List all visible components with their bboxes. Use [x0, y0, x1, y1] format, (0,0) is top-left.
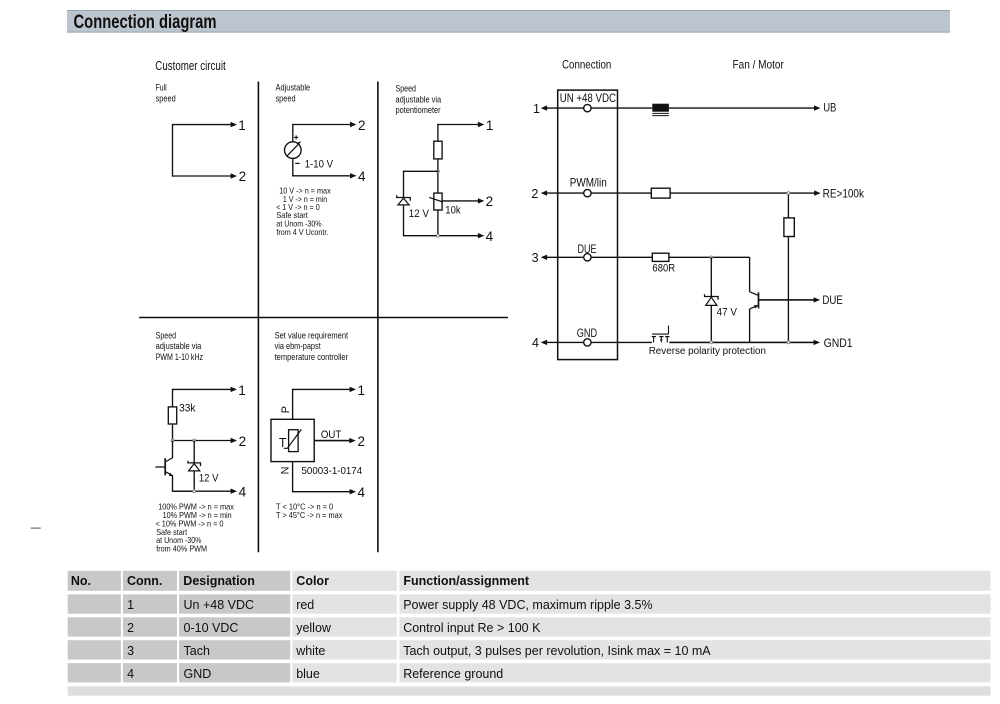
wire vertical: [172, 424, 174, 441]
svg-text:white: white: [295, 644, 325, 658]
svg-text:1: 1: [533, 102, 540, 116]
svg-text:33k: 33k: [179, 403, 196, 415]
resistor R3: [784, 218, 794, 237]
svg-text:UN +48 VDC: UN +48 VDC: [560, 92, 616, 105]
svg-text:DUE: DUE: [822, 293, 843, 307]
svg-text:Reference ground: Reference ground: [403, 667, 503, 681]
svg-text:10k: 10k: [445, 205, 461, 217]
svg-text:N: N: [280, 467, 292, 475]
svg-text:Full: Full: [156, 83, 167, 93]
wiper output to pin 2: [442, 200, 479, 202]
svg-text:4: 4: [239, 484, 247, 499]
zener diode 12 V: [193, 441, 195, 463]
svg-text:Color: Color: [296, 574, 329, 588]
wire vertical N: [292, 462, 294, 493]
wire row 2: [591, 192, 651, 194]
node junction a: [171, 439, 174, 442]
controller box U1: [271, 419, 314, 461]
wire vertical: [172, 124, 174, 177]
wire to GND1: [669, 341, 814, 343]
svg-text:Connection diagram: Connection diagram: [74, 12, 217, 33]
wire vertical: [172, 389, 174, 407]
svg-text:UB: UB: [823, 101, 836, 115]
table row 4: [68, 663, 121, 682]
svg-text:2: 2: [127, 621, 134, 635]
svg-text:50003-1-0174: 50003-1-0174: [302, 466, 363, 477]
svg-text:Function/assignment: Function/assignment: [403, 574, 530, 588]
svg-text:3: 3: [127, 644, 134, 658]
resistor R upper: [434, 141, 442, 159]
zener diode 12 V: [397, 195, 411, 200]
svg-text:1: 1: [238, 383, 246, 398]
svg-text:2: 2: [358, 118, 366, 133]
svg-text:12 V: 12 V: [199, 473, 219, 485]
voltage source 1-10 V: [285, 142, 302, 159]
transistor Q2: [749, 257, 751, 292]
wire down to GND row: [787, 237, 789, 343]
svg-text:2: 2: [239, 434, 247, 449]
svg-text:Customer circuit: Customer circuit: [155, 58, 226, 73]
svg-text:No.: No.: [71, 574, 91, 588]
wire row 1: [591, 107, 652, 109]
potentiometer 10k: [434, 193, 442, 210]
resistor 33k: [168, 407, 176, 424]
node junction R3-GND: [787, 341, 790, 344]
node junction: [437, 234, 440, 237]
base wire to DUE: [759, 299, 815, 301]
svg-text:adjustable via: adjustable via: [396, 94, 442, 104]
zener diode 47 V: [710, 257, 712, 296]
svg-text:1: 1: [127, 598, 134, 612]
svg-text:1: 1: [238, 118, 246, 133]
svg-text:Connection: Connection: [562, 58, 611, 72]
svg-text:4: 4: [127, 667, 134, 681]
svg-text:3: 3: [532, 251, 539, 265]
node junction c: [193, 490, 196, 493]
svg-text:blue: blue: [296, 667, 320, 681]
wire to pin 4: [293, 491, 351, 493]
minus sign: [295, 162, 299, 164]
svg-text:Speed: Speed: [396, 83, 417, 93]
pin 3 lead: [546, 256, 584, 258]
wire to pin 1: [173, 124, 232, 126]
node junction: [437, 170, 440, 173]
svg-text:1: 1: [358, 383, 366, 398]
wire vertical P: [292, 389, 294, 420]
svg-text:2: 2: [531, 187, 538, 201]
svg-text:4: 4: [486, 229, 494, 244]
node junction RE: [787, 192, 790, 195]
svg-text:Designation: Designation: [183, 574, 255, 588]
node junction zener-GND: [710, 341, 713, 344]
table bottom bar: [68, 686, 991, 695]
MOSFET reverse polarity protection: [652, 336, 656, 338]
svg-text:Fan / Motor: Fan / Motor: [733, 58, 784, 72]
svg-text:PWM/lin: PWM/lin: [570, 177, 607, 190]
resistor 680R: [652, 253, 669, 261]
svg-text:680R: 680R: [652, 262, 675, 274]
wire to UB: [669, 107, 815, 109]
svg-text:Reverse polarity protection: Reverse polarity protection: [649, 346, 766, 357]
wire from 680R: [669, 256, 750, 258]
table row 3: [68, 640, 121, 659]
svg-text:12 V: 12 V: [409, 208, 430, 220]
wire to pin 2: [173, 440, 232, 442]
transistor Q1: [172, 441, 174, 458]
svg-text:speed: speed: [156, 93, 176, 103]
wire to pin 2: [173, 175, 232, 177]
svg-text:Power supply 48 VDC, maximum r: Power supply 48 VDC, maximum ripple 3.5%: [403, 598, 652, 612]
pin 4 lead: [546, 341, 584, 343]
svg-text:Conn.: Conn.: [127, 574, 162, 588]
svg-text:RE>100k: RE>100k: [823, 186, 864, 200]
node junction b: [193, 439, 196, 442]
svg-text:2: 2: [486, 194, 494, 209]
table row 2: [68, 617, 121, 636]
svg-text:47 V: 47 V: [717, 306, 738, 318]
margin dash: [31, 527, 41, 529]
svg-text:via ebm-papst: via ebm-papst: [275, 341, 321, 351]
svg-text:2: 2: [358, 434, 366, 449]
resistor R2: [651, 188, 670, 198]
svg-text:red: red: [296, 598, 314, 612]
plus sign: [294, 136, 298, 138]
svg-text:OUT: OUT: [321, 429, 342, 441]
svg-text:potentiometer: potentiometer: [396, 105, 441, 115]
separator vertical 2: [377, 82, 379, 553]
title bar: [67, 10, 950, 33]
svg-text:PWM 1-10 kHz: PWM 1-10 kHz: [156, 352, 204, 362]
pin 1 lead: [546, 107, 584, 109]
svg-text:GND1: GND1: [824, 336, 853, 350]
svg-text:P: P: [280, 406, 292, 413]
svg-text:4: 4: [532, 336, 539, 350]
connector box: [558, 90, 618, 360]
output wire to pin 2: [314, 440, 350, 442]
table row 1: [68, 594, 121, 613]
separator vertical 1: [257, 82, 259, 553]
svg-text:speed: speed: [276, 93, 296, 103]
svg-text:1: 1: [486, 118, 494, 133]
svg-text:GND: GND: [184, 667, 212, 681]
pull resistor vertical wire: [787, 193, 789, 218]
svg-text:2: 2: [239, 169, 247, 184]
wire to RE: [670, 192, 815, 194]
wire row 3: [591, 256, 652, 258]
svg-text:Un +48 VDC: Un +48 VDC: [184, 598, 255, 612]
svg-text:T > 45°C -> n = max: T > 45°C -> n = max: [276, 510, 343, 520]
svg-text:Adjustable: Adjustable: [276, 83, 311, 93]
wire vertical: [437, 210, 439, 236]
wire to pin 1: [293, 388, 351, 390]
svg-text:yellow: yellow: [296, 621, 332, 635]
svg-text:4: 4: [358, 169, 366, 184]
wire to pin 4: [173, 490, 195, 492]
svg-text:temperature controller: temperature controller: [275, 352, 349, 362]
svg-text:1-10 V: 1-10 V: [305, 159, 334, 171]
node junction 680R: [710, 256, 713, 259]
svg-text:Set value requirement: Set value requirement: [275, 330, 349, 340]
wire left branch: [404, 170, 439, 172]
svg-text:4: 4: [358, 485, 366, 500]
thermistor symbol: [289, 430, 299, 452]
wire to pin 2: [292, 124, 294, 142]
wire to pin 1: [173, 388, 232, 390]
wire vertical: [437, 124, 439, 141]
svg-text:Tach: Tach: [184, 644, 210, 658]
wire to pin 4: [404, 235, 438, 237]
separator horizontal: [139, 317, 508, 319]
wire row 4: [591, 341, 652, 343]
svg-text:Speed: Speed: [156, 330, 177, 340]
wire vertical: [437, 159, 439, 193]
svg-text:Tach output, 3 pulses per revo: Tach output, 3 pulses per revolution, Is…: [403, 644, 711, 658]
svg-text:Control input Re > 100 K: Control input Re > 100 K: [403, 621, 541, 635]
wire vertical: [403, 205, 405, 237]
wire to pin 4: [292, 158, 294, 176]
svg-text:from 4 V Ucontr.: from 4 V Ucontr.: [276, 227, 328, 237]
pin 2 lead: [546, 192, 584, 194]
svg-text:0-10 VDC: 0-10 VDC: [184, 621, 239, 635]
svg-text:from 40% PWM: from 40% PWM: [156, 544, 207, 554]
wire to pin 1: [438, 124, 479, 126]
inductor L1: [652, 104, 669, 112]
table header row: [68, 571, 121, 591]
svg-text:adjustable via: adjustable via: [156, 341, 202, 351]
